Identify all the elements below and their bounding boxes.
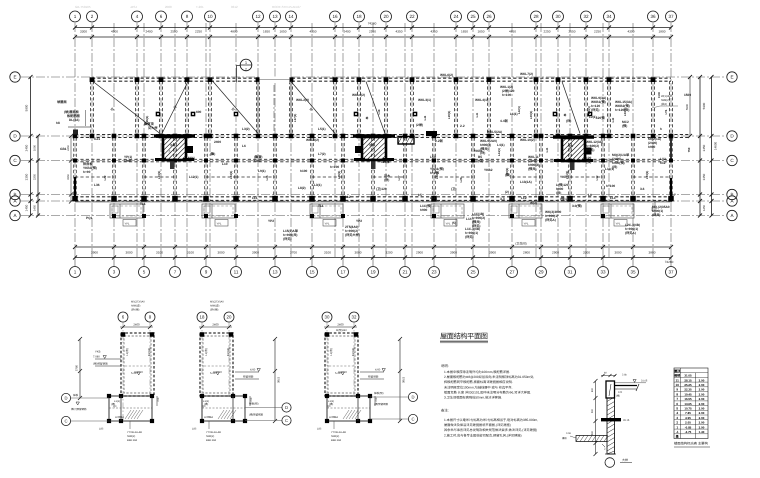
svg-text:5: 5	[143, 270, 146, 275]
svg-text:h9M(2): h9M(2)	[661, 99, 670, 102]
svg-text:19.45: 19.45	[684, 392, 692, 396]
svg-text:楼面结构标高表 主要构: 楼面结构标高表 主要构	[674, 442, 709, 446]
svg-text:L26(1): L26(1)	[337, 171, 341, 180]
svg-text:L7(2): L7(2)	[318, 152, 326, 156]
svg-text:L20(1): L20(1)	[529, 111, 533, 120]
svg-text:h=100: h=100	[430, 171, 439, 175]
drawing title	[440, 332, 488, 343]
svg-text:3100: 3100	[156, 250, 163, 254]
svg-text:30: 30	[555, 14, 561, 19]
svg-text:1: 1	[74, 14, 77, 19]
svg-text:MQ1: MQ1	[188, 156, 195, 160]
svg-text:4.60: 4.60	[250, 369, 256, 372]
svg-text:2.90: 2.90	[699, 378, 705, 382]
interior horizontal beams between C and B	[75, 176, 671, 178]
svg-text:4: 4	[676, 411, 678, 415]
svg-text:L4(1): L4(1)	[497, 143, 505, 147]
svg-text:DL(4A): DL(4A)	[69, 118, 79, 122]
svg-text:屋顶: 屋顶	[674, 369, 681, 373]
svg-text:2.05: 2.05	[685, 421, 691, 425]
svg-text:(详): (详)	[480, 151, 485, 155]
svg-text:B4B 284: B4B 284	[127, 439, 138, 442]
svg-text:TL1: TL1	[140, 202, 146, 206]
svg-text:1450: 1450	[702, 204, 706, 211]
svg-text:1650: 1650	[478, 30, 485, 34]
svg-text:2900: 2900	[416, 250, 423, 254]
svg-text:25: 25	[470, 270, 476, 275]
notes block 2	[441, 409, 538, 438]
svg-text:YP1: YP1	[524, 222, 529, 225]
svg-text:WKL8(2): WKL8(2)	[306, 138, 319, 142]
svg-text:L85: L85	[192, 428, 197, 431]
svg-text:L32: L32	[595, 175, 599, 180]
svg-text:600: 600	[591, 387, 594, 392]
svg-text:(预共): (预共)	[528, 167, 537, 171]
svg-text:h600: h600	[254, 159, 261, 163]
svg-text:L46: L46	[424, 115, 427, 120]
svg-text:1500: 1500	[684, 93, 691, 97]
svg-text:0.08: 0.08	[566, 432, 571, 435]
svg-text:700: 700	[157, 397, 160, 402]
detail plan 1 (axes 6-8)	[61, 301, 160, 443]
svg-text:4500: 4500	[111, 30, 118, 34]
svg-text:1450: 1450	[25, 204, 29, 211]
right dimension lines	[698, 75, 718, 218]
interior vertical beams D-B	[74, 138, 673, 197]
svg-text:TL1: TL1	[318, 204, 324, 208]
svg-text:4350: 4350	[628, 30, 635, 34]
svg-text:h=100: h=100	[330, 165, 339, 169]
svg-text:22: 22	[409, 14, 415, 19]
svg-text:2250: 2250	[594, 30, 601, 34]
svg-text:74260: 74260	[368, 21, 377, 25]
svg-text:9: 9	[205, 270, 208, 275]
svg-text:1: 1	[676, 425, 678, 429]
top dimension band	[73, 26, 673, 40]
svg-text:L31(1): L31(1)	[565, 171, 569, 180]
svg-text:1000: 1000	[33, 144, 37, 151]
svg-text:楼梯: 楼梯	[568, 144, 574, 148]
bottom dimension band	[73, 245, 673, 260]
svg-text:L24(1): L24(1)	[229, 171, 233, 180]
svg-text:-3.75: -3.75	[685, 430, 692, 434]
svg-text:2008: 2008	[165, 5, 172, 9]
building left edge wall	[74, 177, 76, 201]
svg-text:D: D	[411, 395, 414, 400]
svg-text:32: 32	[352, 315, 357, 320]
svg-text:5: 5	[676, 406, 678, 410]
svg-text:(详见A): (详见A)	[625, 231, 636, 235]
svg-text:2: 2	[676, 421, 678, 425]
right axis bubbles	[727, 72, 737, 221]
svg-text:L6: L6	[588, 193, 592, 197]
roof beam band along axis E	[92, 78, 671, 81]
svg-text:4.60B4: 4.60B4	[204, 415, 213, 419]
svg-text:B4B 284: B4B 284	[206, 439, 217, 442]
svg-text:h9M(虚): h9M(虚)	[210, 304, 220, 308]
svg-text:2450: 2450	[67, 145, 70, 151]
svg-text:L(3): L(3)	[430, 155, 436, 159]
svg-text:4650: 4650	[509, 30, 516, 34]
section marker squares in roof band	[156, 112, 593, 117]
svg-text:(详见): (详见)	[465, 235, 474, 239]
svg-text:B: B	[730, 192, 733, 197]
svg-text:(2): (2)	[505, 190, 509, 194]
svg-text:700: 700	[375, 397, 378, 402]
svg-text:E: E	[13, 75, 16, 80]
svg-text:M5(2T)/5A0: M5(2T)/5A0	[131, 301, 145, 304]
svg-text:L1(坡): L1(坡)	[329, 348, 333, 356]
svg-text:M(预)240: M(预)240	[336, 328, 347, 332]
svg-text:(2坡): (2坡)	[416, 123, 423, 127]
svg-text:2-2剖: 2-2剖	[435, 139, 443, 143]
svg-text:L3(2): L3(2)	[242, 127, 250, 131]
svg-text:梯(2)预留钢筋: 梯(2)预留钢筋	[71, 407, 87, 411]
svg-text:L33(1): L33(1)	[645, 171, 649, 180]
svg-text:L25: L25	[265, 175, 269, 180]
svg-text:L1(坡): L1(坡)	[204, 348, 208, 356]
svg-text:L27: L27	[397, 175, 401, 180]
extra rotated labels right half	[365, 92, 661, 156]
svg-text:L5: L5	[418, 193, 422, 197]
svg-text:35: 35	[630, 270, 636, 275]
svg-text:2800: 2800	[523, 250, 530, 254]
svg-text:梯板: 梯板	[73, 393, 79, 397]
svg-text:WKL7(2): WKL7(2)	[520, 72, 533, 76]
left axis bubbles	[10, 72, 20, 221]
svg-text:L85: L85	[317, 428, 322, 431]
svg-text:5780: 5780	[402, 377, 406, 384]
top grid bubbles	[70, 11, 677, 22]
svg-text:2.90: 2.90	[699, 383, 705, 387]
svg-text:(详见大样): (详见大样)	[345, 233, 360, 237]
svg-text:L13(1A): L13(1A)	[520, 180, 532, 184]
svg-text:2400: 2400	[146, 30, 153, 34]
beam band along axis D	[75, 135, 690, 138]
svg-text:5900: 5900	[25, 104, 29, 111]
small hatched block near axis 20 on D	[398, 137, 414, 145]
svg-text:30: 30	[325, 315, 330, 320]
svg-text:未注明梁定位100mm,均轴线居中 或与 柱边平齐,: 未注明梁定位100mm,均轴线居中 或与 柱边平齐,	[444, 385, 512, 389]
svg-text:3: 3	[113, 270, 116, 275]
svg-text:2.屋面板配筋为Φ8@200双层双向,未注明板顶标高为31.: 2.屋面板配筋为Φ8@200双层双向,未注明板顶标高为31.050m处,	[444, 375, 534, 379]
svg-text:3: 3	[676, 416, 678, 420]
svg-text:31: 31	[567, 270, 573, 275]
svg-text:L18: L18	[377, 109, 381, 114]
svg-text:h900: h900	[648, 145, 655, 149]
svg-text:WKL4(2): WKL4(2)	[352, 93, 365, 97]
svg-text:34: 34	[606, 14, 612, 19]
svg-text:(卫)120: (卫)120	[376, 187, 387, 191]
balcony corner columns on axis A1	[112, 214, 605, 218]
svg-text:h9M(2): h9M(2)	[206, 435, 214, 438]
stair shaft 3	[553, 137, 594, 170]
svg-text:(坡): (坡)	[616, 394, 620, 398]
svg-text:B4B 284: B4B 284	[331, 439, 342, 442]
wall section detail	[562, 372, 648, 468]
svg-text:21: 21	[402, 270, 408, 275]
svg-text:GB1: GB1	[60, 147, 67, 151]
right roof overhang label cluster	[652, 95, 678, 108]
svg-text:1500: 1500	[658, 92, 661, 98]
svg-text:YT06L2A-4B: YT06L2A-4B	[331, 431, 346, 434]
detail plan 3 (axes 30-32)	[317, 312, 418, 442]
svg-text:h9M(2): h9M(2)	[127, 435, 135, 438]
svg-text:4-4剖: 4-4剖	[500, 119, 508, 123]
balcony projections below axis A	[110, 204, 634, 226]
svg-text:B1(1B): B1(1B)	[148, 348, 151, 356]
svg-text:7: 7	[174, 270, 177, 275]
svg-text:2400: 2400	[337, 323, 344, 327]
svg-text:14800: 14800	[714, 141, 718, 150]
svg-text:11: 11	[676, 378, 680, 382]
floor elevation table	[674, 368, 710, 447]
svg-text:h: h	[660, 127, 662, 131]
svg-text:YKB: YKB	[95, 351, 101, 354]
beam line along axis C	[75, 159, 672, 162]
svg-text:L8(2): L8(2)	[298, 186, 306, 190]
svg-text:YKB2: YKB2	[484, 168, 493, 172]
svg-text:8: 8	[186, 14, 189, 19]
svg-text:C: C	[285, 418, 288, 423]
svg-text:4: 4	[136, 14, 139, 19]
svg-text:L29: L29	[459, 177, 463, 182]
svg-text:上: 上	[168, 149, 171, 153]
svg-text:h9M(虚): h9M(虚)	[131, 304, 141, 308]
svg-text:h900: h900	[124, 159, 131, 163]
svg-text:3100: 3100	[324, 250, 331, 254]
svg-text:W(1)/4A0: W(1)/4A0	[661, 95, 673, 98]
svg-text:1.40: 1.40	[699, 430, 705, 434]
svg-text:L45: L45	[546, 147, 549, 152]
svg-text:3000: 3000	[126, 250, 133, 254]
notes block 1	[441, 364, 534, 400]
svg-text:2-2: 2-2	[460, 124, 465, 128]
svg-text:WKL2(2): WKL2(2)	[296, 98, 309, 102]
svg-text:L7: L7	[672, 193, 676, 197]
svg-text:h=120(共): h=120(共)	[615, 108, 629, 112]
svg-text:1800: 1800	[659, 30, 666, 34]
svg-text:4350: 4350	[310, 30, 317, 34]
svg-text:16: 16	[332, 14, 338, 19]
dark wall block near axis 23 on D	[426, 131, 437, 136]
svg-text:(梯)预留钢筋: (梯)预留钢筋	[93, 362, 108, 366]
svg-text:5900: 5900	[685, 103, 689, 110]
svg-text:WKL3(1): WKL3(1)	[418, 98, 431, 102]
svg-text:2.90: 2.90	[699, 421, 705, 425]
svg-text:JZSJ: JZSJ	[130, 5, 137, 9]
svg-text:见大样: 见大样	[148, 126, 158, 130]
svg-text:YP1: YP1	[325, 222, 330, 225]
svg-text:26: 26	[486, 14, 492, 19]
svg-text:(共6): (共6)	[661, 102, 667, 106]
svg-text:3900: 3900	[252, 250, 259, 254]
svg-text:(详见): (详见)	[472, 224, 481, 228]
svg-text:3350: 3350	[702, 173, 706, 180]
svg-text:C: C	[64, 419, 67, 424]
columns along axes B-A band	[72, 196, 674, 202]
svg-text:(共): (共)	[556, 191, 561, 195]
svg-text:31.05: 31.05	[684, 374, 692, 378]
svg-text:3350: 3350	[25, 173, 29, 180]
svg-text:31.05: 31.05	[641, 380, 648, 383]
svg-text:2550: 2550	[369, 30, 376, 34]
detail plan 2 (axes 18-20)	[192, 301, 291, 443]
svg-text:YP2: YP2	[356, 219, 362, 223]
svg-text:4.60: 4.60	[375, 369, 381, 372]
faint clipped title text row at very top	[75, 5, 301, 9]
svg-text:L36: L36	[94, 183, 100, 187]
svg-text:2.90: 2.90	[699, 406, 705, 410]
svg-text:预留钢筋: 预留钢筋	[243, 375, 254, 379]
svg-text:3300: 3300	[80, 30, 87, 34]
svg-text:屋面做法及保温详见建施图纸平面图,(详见建施): 屋面做法及保温详见建施图纸平面图,(详见建施)	[444, 423, 511, 427]
svg-text:36: 36	[650, 14, 656, 19]
svg-text:600: 600	[196, 110, 202, 114]
svg-text:16.55: 16.55	[684, 397, 692, 401]
svg-text:h=100: h=100	[606, 184, 615, 188]
svg-text:2450: 2450	[702, 144, 706, 151]
svg-text:L14: L14	[466, 217, 472, 221]
horizontal grid lines (axes A-E)	[21, 77, 726, 216]
svg-text:3100: 3100	[187, 250, 194, 254]
svg-text:4.60B4: 4.60B4	[329, 415, 338, 419]
rotated beam labels on main plan	[103, 108, 691, 183]
svg-text:LL1: LL1	[430, 196, 436, 200]
svg-text:2: 2	[91, 14, 94, 19]
svg-text:L85: L85	[99, 428, 104, 431]
svg-text:7: 7	[676, 397, 678, 401]
svg-text:1650: 1650	[263, 30, 270, 34]
dense annotation cluster left of shaft 1	[56, 110, 202, 135]
svg-text:E: E	[730, 75, 733, 80]
svg-text:h8: h8	[56, 121, 60, 125]
svg-text:GB-T50105: GB-T50105	[75, 5, 91, 9]
columns along axis D	[73, 134, 674, 139]
svg-text:900: 900	[591, 430, 594, 435]
svg-text:2.90: 2.90	[699, 402, 705, 406]
svg-text:3000: 3000	[218, 250, 225, 254]
svg-text:5.20: 5.20	[210, 371, 216, 375]
stair shaft 2	[353, 136, 395, 169]
svg-text:L9(1): L9(1)	[258, 169, 266, 173]
svg-text:28.15: 28.15	[684, 378, 692, 382]
svg-text:LL1: LL1	[610, 196, 616, 200]
svg-text:9: 9	[676, 388, 678, 392]
vertical beams in E-D roof band	[91, 81, 673, 134]
slab edge line along axis A	[75, 201, 672, 203]
svg-text:说明:: 说明:	[441, 364, 449, 368]
svg-text:WKL10(2): WKL10(2)	[520, 138, 535, 142]
svg-text:2.90: 2.90	[699, 425, 705, 429]
bottom grid bubbles	[70, 258, 677, 278]
svg-text:(详): (详)	[566, 119, 571, 123]
svg-text:ROOF-STR-PLAN-07: ROOF-STR-PLAN-07	[272, 5, 301, 9]
svg-text:(预): (预)	[622, 124, 627, 128]
svg-text:12: 12	[255, 14, 261, 19]
svg-text:120厚: 120厚	[381, 160, 390, 164]
svg-text:坡屋面: 坡屋面	[57, 100, 67, 104]
svg-text:19: 19	[370, 270, 376, 275]
svg-text:(预): (预)	[505, 173, 510, 177]
svg-text:(预)120: (预)120	[560, 197, 571, 201]
svg-text:YT06L2A-4B: YT06L2A-4B	[206, 431, 221, 434]
svg-text:h100: h100	[300, 169, 307, 173]
svg-text:120: 120	[618, 391, 623, 394]
svg-text:29: 29	[538, 270, 544, 275]
svg-text:YP2: YP2	[268, 219, 274, 223]
svg-text:750: 750	[687, 147, 691, 152]
svg-text:(梯): (梯)	[204, 402, 208, 406]
svg-text:13.65: 13.65	[684, 402, 692, 406]
svg-text:2250: 2250	[195, 30, 202, 34]
svg-text:32: 32	[583, 14, 589, 19]
svg-text:18: 18	[200, 315, 205, 320]
svg-text:3350: 3350	[67, 174, 70, 180]
svg-text:2.90: 2.90	[699, 392, 705, 396]
svg-text:5780: 5780	[75, 364, 79, 371]
svg-text:YT06L2A-4B: YT06L2A-4B	[127, 431, 142, 434]
svg-text:3350: 3350	[33, 173, 37, 180]
svg-text:h9M(2): h9M(2)	[331, 435, 339, 438]
svg-text:D: D	[64, 396, 67, 401]
svg-text:h12: h12	[660, 161, 666, 165]
svg-text:6: 6	[676, 402, 678, 406]
svg-text:(详见): (详见)	[586, 148, 595, 152]
svg-text:梯: 梯	[563, 113, 567, 116]
stair shaft 1	[154, 136, 195, 169]
svg-text:梯: 梯	[365, 116, 369, 119]
right extra dim segment axis E-D	[685, 75, 692, 138]
svg-text:(梯)预留钢筋: (梯)预留钢筋	[249, 413, 264, 417]
svg-text:25.25: 25.25	[684, 383, 692, 387]
svg-text:(详见A): (详见A)	[545, 218, 556, 222]
svg-text:L5(1): L5(1)	[318, 127, 326, 131]
svg-text:大样: 大样	[622, 458, 628, 462]
svg-text:2.90: 2.90	[699, 397, 705, 401]
svg-text:W(2): W(2)	[530, 201, 537, 205]
svg-text:2: 2	[245, 68, 247, 72]
svg-text:33: 33	[600, 270, 606, 275]
svg-text:L43: L43	[612, 117, 615, 122]
svg-text:-1: -1	[676, 430, 679, 434]
svg-text:3.卫生间板面标高降低50mm,做法详建施.: 3.卫生间板面标高降低50mm,做法详建施.	[444, 396, 502, 400]
svg-text:WKL5(2A): WKL5(2A)	[487, 130, 502, 134]
svg-text:GZ1: GZ1	[94, 137, 100, 141]
svg-text:(卫): (卫)	[451, 187, 456, 191]
svg-text:13: 13	[272, 14, 278, 19]
svg-text:L1(坡): L1(坡)	[125, 348, 129, 356]
svg-text:1: 1	[74, 270, 77, 275]
svg-text:WKL6(2): WKL6(2)	[440, 73, 453, 77]
svg-text:5780: 5780	[277, 377, 281, 384]
svg-text:10: 10	[207, 14, 213, 19]
svg-text:0312: 0312	[231, 5, 238, 9]
svg-text:1.本图尺寸以毫米计(标高为米计)标高相当于,绝对标高为38: 1.本图尺寸以毫米计(标高为米计)标高相当于,绝对标高为385.000m,	[444, 418, 538, 422]
svg-text:17: 17	[340, 270, 346, 275]
top dimension numbers	[80, 21, 666, 33]
svg-text:20: 20	[227, 315, 232, 320]
svg-text:2400: 2400	[344, 30, 351, 34]
beam and slab labels on main plan	[57, 72, 691, 241]
svg-text:3900: 3900	[489, 250, 496, 254]
svg-text:YP1: YP1	[125, 222, 130, 225]
svg-text:L41: L41	[476, 112, 479, 117]
detail callout bubble 1	[237, 59, 252, 82]
svg-text:2400: 2400	[214, 140, 221, 144]
svg-text:B1(1B): B1(1B)	[227, 348, 230, 356]
svg-text:h900: h900	[420, 208, 427, 212]
